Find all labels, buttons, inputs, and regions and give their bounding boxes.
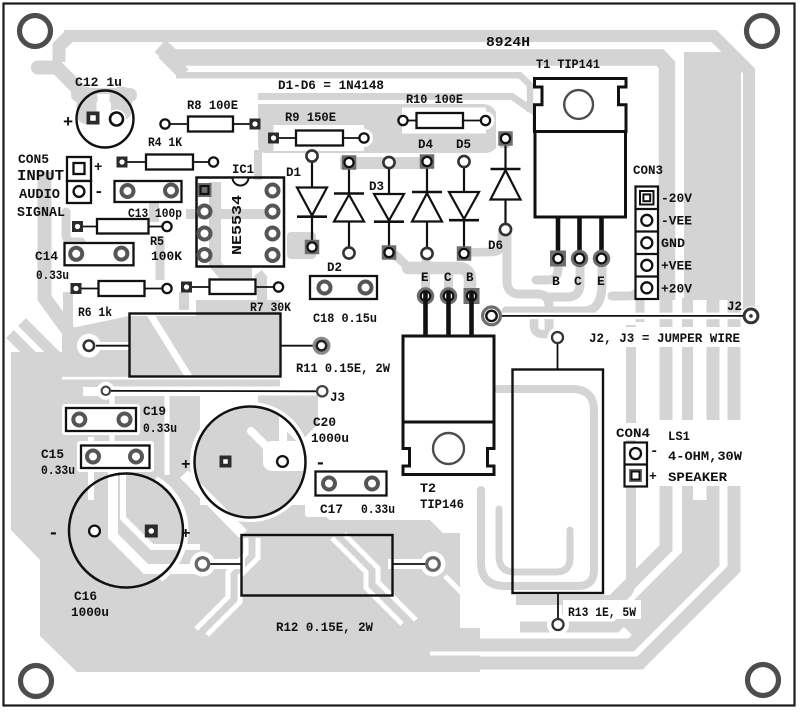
svg-text:C14: C14 xyxy=(35,250,58,264)
svg-text:TIP146: TIP146 xyxy=(420,497,464,512)
svg-text:C15: C15 xyxy=(41,448,64,462)
svg-text:C17: C17 xyxy=(320,503,343,517)
svg-text:0.33u: 0.33u xyxy=(361,503,395,517)
trace left side band lower xyxy=(45,172,76,340)
trace R5R-R6R vertical xyxy=(156,236,165,280)
trace band through C12 xyxy=(38,68,130,96)
pour white channels xyxy=(150,314,189,377)
diode D1 xyxy=(311,156,313,188)
svg-text:T1 TIP141: T1 TIP141 xyxy=(536,57,600,72)
svg-text:CON4: CON4 xyxy=(616,427,651,441)
T1 pads B C E xyxy=(550,251,566,267)
trace D5 to D6 elbow xyxy=(467,231,502,253)
capacitor C14 xyxy=(65,243,134,265)
svg-text:1000u: 1000u xyxy=(311,432,349,446)
mounting hole top-left xyxy=(20,16,51,47)
svg-text:NE5534: NE5534 xyxy=(231,195,246,255)
svg-text:-20V: -20V xyxy=(661,191,692,206)
diode D4 xyxy=(426,162,428,193)
trace CON5 to C14 xyxy=(66,212,81,242)
svg-text:B: B xyxy=(466,271,474,285)
trace wide column right side xyxy=(684,52,741,300)
svg-text:+: + xyxy=(649,469,657,484)
trace diode top band xyxy=(340,157,433,169)
white keepouts xyxy=(62,404,140,435)
svg-text:LS1: LS1 xyxy=(668,429,690,444)
trace C13 to R5 xyxy=(149,196,159,222)
resistor R9 xyxy=(274,137,297,139)
copper pour NE of C20 xyxy=(258,391,318,450)
trace T1 E pad elbow xyxy=(506,261,602,311)
copper pour upper lobe R11 xyxy=(62,316,280,387)
trace T1 B pad elbow xyxy=(536,264,558,280)
copper pour mid column xyxy=(83,396,200,672)
text keepouts right side xyxy=(585,327,748,347)
jumper J2 xyxy=(492,315,752,317)
svg-text:D2: D2 xyxy=(327,260,342,275)
T1 legs xyxy=(556,217,561,259)
svg-text:D3: D3 xyxy=(369,179,384,194)
resistor R7 xyxy=(187,286,210,288)
svg-text:D6: D6 xyxy=(488,238,503,253)
svg-text:+VEE: +VEE xyxy=(661,259,692,274)
svg-text:0.33u: 0.33u xyxy=(41,464,75,478)
svg-text:+20V: +20V xyxy=(661,282,692,297)
svg-text:R11 0.15E, 2W: R11 0.15E, 2W xyxy=(296,362,390,376)
diode D2 xyxy=(348,163,350,194)
connector CON5 xyxy=(67,157,91,181)
trace D6 stub xyxy=(500,132,510,148)
trace band B xyxy=(160,46,667,300)
svg-text:100K: 100K xyxy=(151,250,183,264)
diode D6 xyxy=(504,139,506,170)
C16 interior channels xyxy=(113,455,200,569)
svg-text:C: C xyxy=(444,271,452,285)
svg-text:C20: C20 xyxy=(313,416,336,430)
trace strip s5 xyxy=(450,298,734,663)
diagonal channel NE C20 xyxy=(286,424,322,461)
trace T1 C pad elbow xyxy=(549,261,580,297)
trace R6 pad down xyxy=(63,292,73,332)
trace strip s3 xyxy=(520,298,688,627)
svg-text:R12 0.15E, 2W: R12 0.15E, 2W xyxy=(276,621,373,635)
resistor R8 xyxy=(165,123,188,125)
svg-text:8924H: 8924H xyxy=(486,36,530,51)
svg-text:R8 100E: R8 100E xyxy=(187,98,238,113)
svg-text:R10 100E: R10 100E xyxy=(406,92,463,107)
svg-text:+: + xyxy=(63,114,73,133)
resistor R10 xyxy=(403,120,417,122)
copper pour left column xyxy=(11,352,83,672)
trace IC1 horizontal xyxy=(215,209,268,219)
svg-text:C18 0.15u: C18 0.15u xyxy=(313,312,377,326)
svg-text:CON5: CON5 xyxy=(18,152,49,167)
svg-text:R13 1E, 5W: R13 1E, 5W xyxy=(568,606,636,620)
mounting hole bottom-left xyxy=(21,666,52,697)
svg-text:+: + xyxy=(181,525,191,543)
trace strip s1 CON3 to chevron xyxy=(516,325,631,600)
svg-text:R9 150E: R9 150E xyxy=(285,110,336,125)
trace R7 area down xyxy=(258,273,262,300)
trace blob to IC1 xyxy=(254,150,262,180)
label keepout R13 xyxy=(563,600,641,619)
svg-text:+: + xyxy=(181,456,191,474)
trace diagonal into pour xyxy=(22,322,56,356)
svg-text:D5: D5 xyxy=(456,137,471,152)
svg-text:C12 1u: C12 1u xyxy=(75,75,122,90)
T2 legs xyxy=(423,291,428,336)
capacitor C15 xyxy=(81,446,150,469)
svg-text:-: - xyxy=(94,183,104,201)
trace band A top xyxy=(64,36,749,310)
op-amp IC1 NE5534 xyxy=(197,178,285,267)
svg-text:SIGNAL: SIGNAL xyxy=(17,205,65,221)
svg-text:IC1: IC1 xyxy=(232,162,254,177)
resistor R12 xyxy=(242,535,393,596)
trace D6 bottom to R13 xyxy=(507,233,549,328)
svg-text:-: - xyxy=(48,524,59,544)
svg-text:J2: J2 xyxy=(727,299,742,314)
svg-text:C16: C16 xyxy=(74,590,97,604)
trace band top-left corner stub xyxy=(59,36,70,63)
svg-text:J3: J3 xyxy=(330,390,345,405)
trace left of IC1 xyxy=(186,209,204,219)
svg-text:E: E xyxy=(421,271,429,285)
resistor R6 xyxy=(76,288,99,290)
svg-text:INPUT: INPUT xyxy=(17,168,64,185)
capacitor C16 xyxy=(69,474,183,588)
svg-text:D4: D4 xyxy=(418,137,433,152)
trace diode bottom blob xyxy=(287,232,316,259)
svg-text:+: + xyxy=(94,160,102,176)
trace CON3 elbow xyxy=(612,264,640,296)
svg-text:E: E xyxy=(597,274,605,289)
trace branch to R13 lead xyxy=(534,313,550,334)
mounting hole top-right xyxy=(747,16,778,47)
svg-text:-VEE: -VEE xyxy=(661,214,692,229)
svg-text:CON3: CON3 xyxy=(633,163,663,178)
svg-text:0.33u: 0.33u xyxy=(36,269,69,283)
svg-text:C: C xyxy=(574,274,582,289)
svg-text:AUDIO: AUDIO xyxy=(19,187,60,203)
mounting hole bottom-right xyxy=(748,665,779,696)
jumper J3 xyxy=(106,390,322,393)
svg-text:D1: D1 xyxy=(286,165,301,180)
capacitor C17 xyxy=(316,472,387,496)
svg-text:R6 1k: R6 1k xyxy=(78,306,112,320)
resistor R4 xyxy=(122,161,146,163)
diagonal channel SW C20 xyxy=(184,474,243,534)
trace under R7 elbow xyxy=(179,292,189,310)
svg-text:GND: GND xyxy=(661,236,685,251)
trace strip s2 xyxy=(562,300,666,609)
resistor R13 xyxy=(513,370,604,594)
svg-text:R4 1K: R4 1K xyxy=(148,135,182,150)
svg-text:0.33u: 0.33u xyxy=(143,422,177,436)
trace band D xyxy=(258,97,536,132)
svg-text:C19: C19 xyxy=(143,405,166,419)
capacitor C13 xyxy=(115,181,182,202)
trace corner mass between s3 s4 xyxy=(624,500,700,627)
trace blob around R9 R10 xyxy=(258,104,496,153)
svg-text:D1-D6 = 1N4148: D1-D6 = 1N4148 xyxy=(278,78,384,93)
svg-text:J2, J3 = JUMPER WIRE: J2, J3 = JUMPER WIRE xyxy=(589,332,740,346)
trace band C xyxy=(176,75,530,112)
capacitor C18 xyxy=(310,276,377,299)
T2 pads E C B xyxy=(418,289,432,303)
diode D3 xyxy=(388,163,390,195)
trace band above R13 looping through R13 xyxy=(481,389,594,586)
diode D5 xyxy=(463,162,465,193)
svg-text:1000u: 1000u xyxy=(71,606,109,620)
C20 disk xyxy=(192,404,308,520)
trace strip s4 xyxy=(455,298,713,645)
svg-text:SPEAKER: SPEAKER xyxy=(668,470,727,485)
connector CON3 xyxy=(636,187,659,300)
resistor R11 xyxy=(130,314,281,377)
svg-text:R5: R5 xyxy=(150,235,164,249)
capacitor C20 xyxy=(195,407,306,518)
svg-text:T2: T2 xyxy=(420,481,436,496)
svg-text:-: - xyxy=(650,444,658,460)
svg-text:4-OHM,30W: 4-OHM,30W xyxy=(668,449,742,464)
white channel along J2 wire xyxy=(498,313,740,320)
copper pour bottom block xyxy=(200,505,480,672)
capacitor C19 xyxy=(66,408,136,431)
capacitor C12 xyxy=(77,91,134,148)
connector CON4 xyxy=(625,443,648,487)
resistor R5 xyxy=(78,226,98,228)
svg-text:B: B xyxy=(552,274,560,289)
trace D4-D5 bottoms to T2 bus xyxy=(408,268,470,290)
R12 interior channels xyxy=(196,538,246,629)
trace IC1 vertical xyxy=(215,182,252,272)
